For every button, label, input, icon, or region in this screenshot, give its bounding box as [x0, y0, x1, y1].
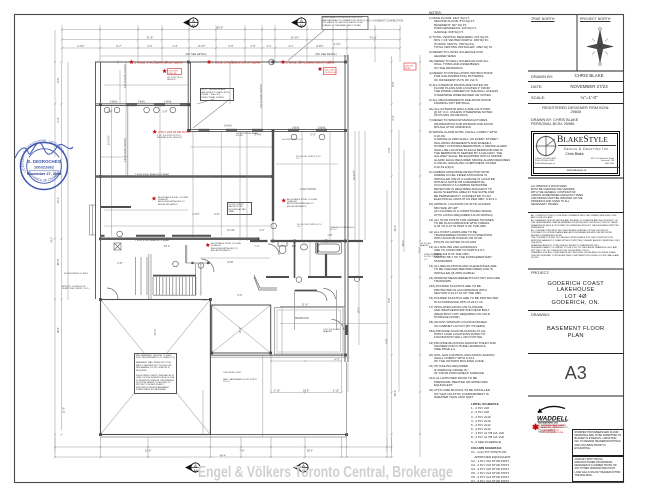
svg-text:A: A — [192, 18, 195, 23]
svg-text:2'-0½": 2'-0½" — [192, 212, 199, 216]
svg-text:2'-4": 2'-4" — [172, 44, 177, 48]
svg-text:21'-6": 21'-6" — [302, 303, 309, 307]
svg-text:9'-6": 9'-6" — [385, 338, 389, 343]
svg-text:4'-0": 4'-0" — [334, 358, 339, 362]
svg-text:WC: WC — [292, 244, 296, 248]
svg-text:16'-0½": 16'-0½" — [291, 36, 300, 40]
svg-text:2-BAIL: 2-BAIL — [138, 100, 146, 104]
svg-text:4'-1½": 4'-1½" — [369, 36, 376, 40]
svg-text:MC = MOMENT CONNECTION: MC = MOMENT CONNECTION — [367, 19, 404, 23]
svg-text:9'-8½": 9'-8½" — [316, 44, 323, 48]
svg-text:BEDROOM: BEDROOM — [295, 316, 308, 320]
svg-text:9'-6": 9'-6" — [147, 44, 152, 48]
svg-text:10'-0": 10'-0" — [238, 327, 242, 334]
svg-text:18'-2": 18'-2" — [307, 449, 314, 453]
svg-text:8'-6": 8'-6" — [391, 81, 395, 86]
svg-text:2 WIDE STRL BEAM DROP BEAM: 2 WIDE STRL BEAM DROP BEAM — [135, 61, 184, 65]
svg-text:November 27, 2023: November 27, 2023 — [27, 172, 61, 176]
svg-text:2'-8": 2'-8" — [117, 261, 122, 265]
svg-text:18'-4": 18'-4" — [56, 327, 60, 334]
svg-text:65'-8": 65'-8" — [56, 259, 60, 266]
svg-text:2'-10": 2'-10" — [333, 389, 340, 393]
svg-text:2'-8": 2'-8" — [250, 44, 255, 48]
svg-text:POST: POST — [405, 68, 411, 70]
svg-text:100322682: 100322682 — [34, 165, 55, 170]
svg-text:22'-6": 22'-6" — [145, 449, 152, 453]
svg-text:2-BAIL: 2-BAIL — [164, 100, 172, 104]
svg-text:36'-2": 36'-2" — [393, 225, 397, 232]
svg-text:31'-8": 31'-8" — [147, 36, 154, 40]
svg-text:2 WIDE STRL BEAM DROP BEAM: 2 WIDE STRL BEAM DROP BEAM — [286, 61, 335, 65]
svg-text:3'-1": 3'-1" — [288, 44, 293, 48]
svg-text:A6: A6 — [300, 24, 304, 28]
svg-text:FLEX ROOM: FLEX ROOM — [300, 187, 315, 191]
svg-text:2 PLY 2x8 STUD POST: 2 PLY 2x8 STUD POST — [158, 130, 191, 134]
svg-text:14×8½: 14×8½ — [224, 124, 233, 128]
svg-text:5'-8": 5'-8" — [387, 147, 391, 152]
svg-text:A6: A6 — [192, 24, 196, 28]
svg-text:LVL FULL HT: LVL FULL HT — [325, 72, 338, 74]
svg-text:7'-6": 7'-6" — [239, 449, 244, 453]
svg-text:16'-2": 16'-2" — [357, 307, 361, 314]
svg-text:11'-6": 11'-6" — [62, 407, 66, 413]
svg-text:9'-6": 9'-6" — [387, 297, 391, 302]
svg-text:7'-1": 7'-1" — [254, 244, 259, 248]
svg-text:3'-0": 3'-0" — [310, 133, 315, 137]
svg-text:5'-0": 5'-0" — [237, 293, 242, 297]
svg-text:2'-0": 2'-0" — [259, 228, 264, 232]
svg-text:65'-8": 65'-8" — [217, 26, 224, 30]
svg-text:1'-6": 1'-6" — [327, 233, 332, 237]
svg-text:4'-4½": 4'-4½" — [333, 42, 340, 46]
svg-text:14J FLOOR JOISTS: 14J FLOOR JOISTS — [259, 84, 263, 108]
svg-text:3'-1": 3'-1" — [202, 298, 207, 302]
svg-text:4'-1": 4'-1" — [266, 44, 271, 48]
svg-text:5-BAIL: 5-BAIL — [292, 125, 300, 129]
svg-text:6'-8": 6'-8" — [214, 212, 219, 216]
svg-text:2'-10": 2'-10" — [274, 389, 281, 393]
svg-text:36'-0": 36'-0" — [393, 390, 397, 397]
svg-text:(MC SEE DETAIL): (MC SEE DETAIL) — [315, 52, 336, 56]
svg-text:3'-4": 3'-4" — [391, 115, 395, 120]
svg-text:48'-2": 48'-2" — [401, 240, 405, 247]
svg-text:22'-0": 22'-0" — [153, 329, 157, 336]
svg-text:GYM: GYM — [227, 260, 233, 264]
svg-text:(MC SEE DETAIL): (MC SEE DETAIL) — [185, 52, 206, 56]
svg-text:19'-8": 19'-8" — [303, 389, 310, 393]
svg-text:S. DESROCHES: S. DESROCHES — [27, 159, 60, 164]
svg-text:5'-5": 5'-5" — [228, 44, 233, 48]
svg-text:12'-10": 12'-10" — [227, 228, 235, 232]
svg-text:A: A — [300, 18, 303, 23]
svg-text:16'-10½": 16'-10½" — [352, 170, 356, 180]
svg-text:5'-8": 5'-8" — [162, 110, 167, 114]
svg-text:49'-4": 49'-4" — [220, 454, 227, 458]
svg-text:5-BAIL: 5-BAIL — [318, 125, 326, 129]
svg-text:10'-2": 10'-2" — [164, 244, 171, 248]
svg-text:8'-0½": 8'-0½" — [198, 44, 205, 48]
svg-text:2 WIDE STRL BEAM DROP BEAM: 2 WIDE STRL BEAM DROP BEAM — [212, 61, 261, 65]
